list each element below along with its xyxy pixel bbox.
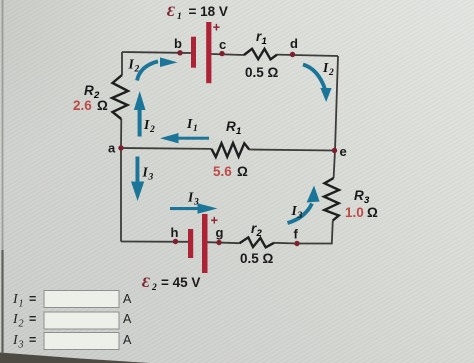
photo edge left line [1,250,3,354]
battery E1 positive plate [206,22,211,83]
wire left side [121,52,122,242]
label r2 [251,221,263,239]
svg-text:3: 3 [148,173,154,183]
current arrow I3 curved right [288,186,320,224]
photo edge left line upper faint [2,0,4,250]
svg-text:2: 2 [19,319,24,330]
current arrow I3 right (bottom branch) [170,203,218,213]
svg-text:R: R [354,188,364,203]
label R1 [226,119,241,137]
svg-text:2: 2 [151,283,157,293]
wire top side [122,52,338,56]
svg-text:g: g [216,225,224,240]
svg-text:I: I [322,60,329,75]
label 1.0 ohm [345,205,378,220]
battery E2 positive plate [202,214,208,273]
resistor r1 0.5 ohm (top) [244,49,277,60]
battery E2 negative plate [188,229,193,258]
label r1 [256,29,267,47]
label 5.6 ohm [213,164,248,179]
current arrow I3 down (left branch) [131,157,144,202]
svg-text:2.6: 2.6 [73,98,92,113]
svg-text:A: A [123,292,132,306]
svg-text:f: f [294,227,299,242]
current label I3 bottom branch [187,190,199,208]
svg-text:3: 3 [297,211,303,221]
svg-text:0.5 Ω: 0.5 Ω [245,65,279,80]
current arrow I2 up (left branch) [134,91,146,137]
svg-text:d: d [290,36,298,51]
current label I3 right [291,203,303,221]
svg-text:1.0: 1.0 [345,205,364,220]
svg-text:= 45 V: = 45 V [161,275,200,290]
label R2 [84,83,100,101]
svg-text:c: c [219,37,226,52]
svg-text:I: I [128,57,135,72]
svg-text:+: + [213,20,221,35]
current label I2 top left [128,57,140,75]
svg-text:2: 2 [134,65,140,75]
current label I3 left branch [142,165,154,183]
resistor r2 0.5 ohm (bottom) [240,237,275,247]
resistor R3 1.0 ohm (right) [324,178,339,221]
svg-text:I: I [143,117,150,132]
svg-text:1: 1 [236,126,241,137]
svg-text:5.6: 5.6 [213,164,232,179]
svg-text:e: e [340,144,347,159]
svg-text:3: 3 [193,198,199,208]
svg-text:I: I [142,165,149,180]
node a [108,141,124,156]
svg-text:I: I [186,116,193,131]
node c [219,37,226,56]
node g [216,225,224,245]
answer row I3 [12,333,132,351]
wire right side lower [297,221,333,244]
svg-text:=: = [29,333,36,347]
svg-text:2: 2 [149,125,155,135]
photo edge dark corner bottom left [0,353,150,363]
svg-text:a: a [108,141,116,156]
svg-text:3: 3 [18,340,24,351]
svg-text:Ω: Ω [367,205,378,220]
current arrow I2 curved top left [137,57,178,80]
svg-text:Ɛ: Ɛ [167,4,175,20]
label R3 [354,188,370,206]
node h [171,225,179,244]
svg-text:=: = [29,312,36,326]
current label I2 left branch [143,117,155,135]
current label I2 top right [322,60,334,78]
current arrow I1 left (middle branch) [160,133,209,143]
node b [174,36,183,56]
svg-text:R: R [84,83,94,98]
answer row I2 [12,312,132,330]
svg-text:0.5 Ω: 0.5 Ω [240,251,274,266]
answer row I1 [12,291,132,310]
resistor R1 5.6 ohm (middle) [212,143,250,157]
wire bottom side [121,242,297,244]
svg-text:1: 1 [19,299,24,310]
resistor R2 2.6 ohm (left) [112,75,128,119]
svg-text:1: 1 [177,12,182,22]
wire right side upper [334,56,338,178]
svg-text:h: h [171,225,179,240]
svg-text:= 18 V: = 18 V [189,4,228,19]
svg-text:I: I [187,190,194,205]
svg-text:2: 2 [328,68,334,78]
battery E1 negative plate [191,37,196,68]
wire middle branch [121,148,335,151]
node f [294,227,300,247]
current label I1 [186,116,198,134]
svg-text:Ɛ: Ɛ [142,275,150,291]
svg-text:A: A [123,312,132,326]
node d [290,36,298,57]
EMF label E1 = 18 V [167,4,228,22]
svg-text:R: R [226,119,236,134]
svg-text:A: A [123,333,132,347]
current arrow I2 curved top right [303,65,332,103]
svg-text:1: 1 [262,36,267,47]
svg-text:Ω: Ω [237,164,248,179]
svg-text:1: 1 [193,124,198,134]
svg-text:I: I [291,203,298,218]
svg-text:=: = [29,292,36,306]
svg-text:2: 2 [256,228,263,239]
svg-text:Ω: Ω [97,98,108,113]
node e [332,144,347,159]
label 2.6 ohm [73,98,108,113]
EMF label E2 = 45 V [142,275,200,293]
svg-text:b: b [174,36,182,51]
